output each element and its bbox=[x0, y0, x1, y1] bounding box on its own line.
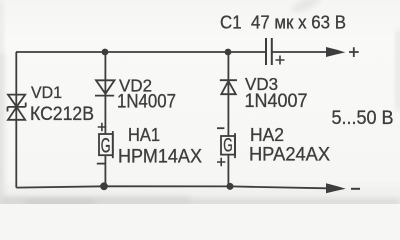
svg-text:HA1: HA1 bbox=[128, 124, 160, 145]
svg-text:G: G bbox=[223, 136, 233, 157]
svg-text:НРМ14АХ: НРМ14АХ bbox=[118, 146, 202, 168]
svg-text:1N4007: 1N4007 bbox=[245, 91, 308, 112]
svg-text:5...50 В: 5...50 В bbox=[332, 108, 394, 129]
svg-text:КС212В: КС212В bbox=[30, 104, 94, 125]
svg-text:HA2: HA2 bbox=[250, 124, 284, 145]
svg-text:1N4007: 1N4007 bbox=[117, 91, 176, 112]
svg-text:VD1: VD1 bbox=[31, 83, 62, 102]
svg-text:НРА24АХ: НРА24АХ bbox=[249, 144, 330, 166]
svg-text:C1 47 мк х 63 В: C1 47 мк х 63 В bbox=[220, 12, 346, 32]
svg-text:G: G bbox=[101, 134, 111, 157]
